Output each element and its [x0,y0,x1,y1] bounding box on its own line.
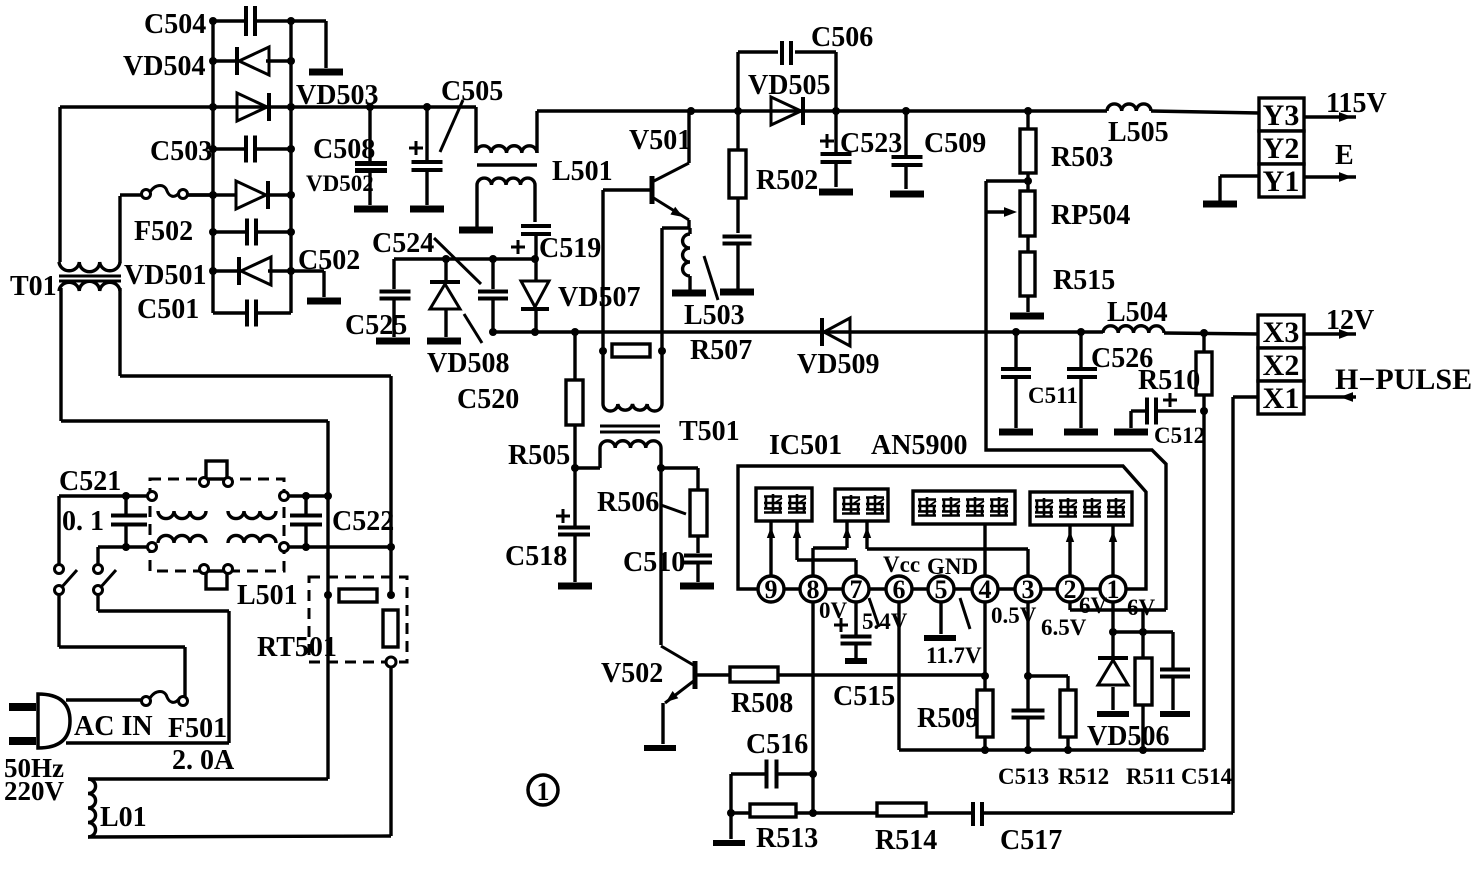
svg-text:RT501: RT501 [257,632,337,663]
svg-text:C510: C510 [623,547,685,578]
svg-text:L01: L01 [100,802,147,833]
svg-text:C521: C521 [59,466,121,497]
svg-text:C506: C506 [811,22,873,53]
svg-text:220V: 220V [4,776,65,806]
svg-text:AN5900: AN5900 [871,430,967,461]
svg-text:C522: C522 [332,506,394,537]
svg-text:C523: C523 [840,128,902,159]
svg-text:Y2: Y2 [1263,132,1300,165]
svg-text:C525: C525 [345,310,407,341]
svg-text:X2: X2 [1263,349,1300,382]
svg-text:R513: R513 [756,823,818,854]
svg-text:R509: R509 [917,703,979,734]
svg-text:C502: C502 [298,245,360,276]
svg-text:L501: L501 [237,580,298,611]
svg-text:IC501: IC501 [769,430,842,461]
svg-text:C513: C513 [998,764,1049,789]
svg-text:Y1: Y1 [1263,165,1300,198]
svg-text:6V: 6V [1127,595,1156,620]
svg-text:C508: C508 [313,134,375,165]
svg-text:VD502: VD502 [306,171,374,196]
svg-text:VD508: VD508 [427,348,509,379]
svg-text:C519: C519 [539,233,601,264]
svg-text:Vcc: Vcc [883,552,920,577]
svg-text:1: 1 [537,777,550,806]
svg-text:VD504: VD504 [123,51,205,82]
svg-text:C514: C514 [1181,764,1233,789]
svg-text:R514: R514 [875,825,937,856]
svg-text:R506: R506 [597,487,659,518]
svg-text:VD507: VD507 [558,282,640,313]
svg-text:C512: C512 [1154,423,1205,448]
svg-text:4: 4 [979,575,992,604]
svg-text:9: 9 [765,575,778,604]
svg-text:F502: F502 [134,216,193,247]
svg-text:GND: GND [927,554,978,579]
svg-text:T01: T01 [10,271,57,302]
svg-text:X3: X3 [1263,316,1300,349]
svg-text:R502: R502 [756,165,818,196]
svg-text:C509: C509 [924,128,986,159]
svg-text:6.5V: 6.5V [1041,615,1087,640]
svg-text:0. 1: 0. 1 [62,506,104,537]
svg-text:H−PULSE: H−PULSE [1335,363,1472,396]
svg-text:RP504: RP504 [1051,200,1130,231]
svg-text:11.7V: 11.7V [926,643,982,668]
svg-text:L501: L501 [552,156,613,187]
svg-text:C524: C524 [372,228,434,259]
svg-text:2: 2 [1064,575,1077,604]
svg-text:VD505: VD505 [748,70,830,101]
svg-text:C518: C518 [505,541,567,572]
svg-text:VD501: VD501 [124,260,206,291]
svg-text:L505: L505 [1108,117,1169,148]
svg-text:3: 3 [1022,575,1035,604]
svg-text:115V: 115V [1326,88,1387,119]
svg-text:VD506: VD506 [1087,721,1169,752]
svg-text:5: 5 [935,575,948,604]
svg-text:2. 0A: 2. 0A [172,745,235,776]
svg-text:C503: C503 [150,136,212,167]
svg-text:C501: C501 [137,294,199,325]
svg-text:6: 6 [893,575,906,604]
svg-text:0V: 0V [819,598,848,623]
svg-text:R515: R515 [1053,265,1115,296]
svg-text:6V: 6V [1079,593,1108,618]
svg-text:8: 8 [807,575,820,604]
svg-text:C515: C515 [833,681,895,712]
svg-text:E: E [1335,140,1354,171]
svg-text:R510: R510 [1138,365,1200,396]
svg-text:VD503: VD503 [296,80,378,111]
svg-text:VD509: VD509 [797,349,879,380]
svg-text:R512: R512 [1058,764,1109,789]
svg-text:AC IN: AC IN [74,711,153,742]
svg-text:0.5V: 0.5V [991,603,1037,628]
svg-text:C517: C517 [1000,825,1062,856]
svg-text:L503: L503 [684,300,745,331]
svg-text:F501: F501 [168,713,227,744]
svg-text:7: 7 [850,575,863,604]
svg-text:C511: C511 [1028,383,1078,408]
svg-text:C516: C516 [746,729,808,760]
svg-text:V501: V501 [629,125,691,156]
svg-text:T501: T501 [679,416,740,447]
svg-text:1: 1 [1107,575,1120,604]
svg-text:C520: C520 [457,384,519,415]
svg-text:R503: R503 [1051,142,1113,173]
svg-text:5.4V: 5.4V [862,609,908,634]
svg-text:C504: C504 [144,9,206,40]
svg-text:R511: R511 [1126,764,1176,789]
svg-text:C505: C505 [441,76,503,107]
svg-text:12V: 12V [1326,305,1374,336]
svg-text:R505: R505 [508,440,570,471]
svg-text:L504: L504 [1107,297,1168,328]
svg-text:Y3: Y3 [1263,99,1300,132]
svg-text:V502: V502 [601,658,663,689]
svg-text:X1: X1 [1263,382,1300,415]
svg-text:R507: R507 [690,335,752,366]
svg-text:R508: R508 [731,688,793,719]
